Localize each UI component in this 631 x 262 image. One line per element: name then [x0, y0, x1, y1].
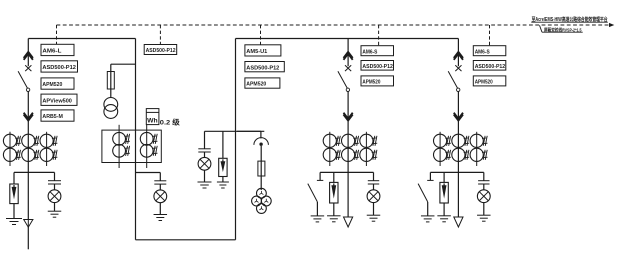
- circuit breaker feeder2 contact cross: [455, 65, 461, 71]
- display label box feeder1 ASD500-P12: [361, 61, 394, 71]
- ground of PT arrester: [217, 181, 229, 183]
- circuit breaker feeder1 pivot: [346, 88, 349, 91]
- svg-text:AM5-U1: AM5-U1: [246, 49, 268, 55]
- platform title underline: [531, 21, 608, 23]
- svg-text:ASD500-P12: ASD500-P12: [475, 64, 506, 70]
- wire PT branch rail: [205, 130, 265, 132]
- svg-text:APM520: APM520: [42, 82, 62, 88]
- svg-text:APM520: APM520: [475, 80, 493, 86]
- label box incoming ARB5-M: [41, 110, 74, 121]
- ground of indicator feeder1: [367, 214, 381, 216]
- current transformers feeder1 phase stubs: [329, 132, 331, 166]
- wire feeder1 through CT group: [347, 134, 349, 172]
- CT feeder1 col2 row2: [342, 148, 355, 161]
- CT feeder1 col3 row2: [360, 148, 373, 161]
- CT feeder1 col1 row1: [323, 134, 336, 147]
- svg-text:AM6-L: AM6-L: [42, 49, 61, 55]
- wire feeder2 bottom rail: [430, 171, 483, 173]
- metering CT col2 row2: [140, 144, 153, 157]
- ground of arrester feeder2: [437, 215, 451, 217]
- ground of arrester incoming: [6, 218, 22, 220]
- wire incoming QF1 below breaker: [27, 92, 29, 135]
- drawout contact upper incoming QF1: [24, 52, 33, 58]
- wire feeder2 below breaker: [457, 92, 459, 135]
- comm drop to feeder2 AM6-S: [489, 25, 491, 46]
- svg-text:Wh: Wh: [147, 118, 158, 125]
- wire PT cabinet main riser: [235, 39, 237, 240]
- live-line indicator feeder2 capacitor and lamp: [483, 172, 485, 180]
- communication bus dashed line: [57, 24, 610, 26]
- meter label box feeder2 APM520: [473, 76, 506, 86]
- display label box feeder2 ASD500-P12: [473, 61, 506, 71]
- live-line indicator incoming capacitor and lamp: [54, 172, 56, 180]
- circuit breaker feeder2 blade: [448, 71, 457, 88]
- wire PT fuse branch: [237, 130, 261, 132]
- svg-text:APM520: APM520: [246, 82, 266, 88]
- relay label box feeder2 AM6-S: [473, 46, 506, 56]
- wire metering PT branch: [111, 63, 136, 65]
- wire feeder1 below breaker: [347, 92, 349, 135]
- cable head feeder1 outgoing arrow: [344, 217, 353, 227]
- CT incoming col2 row1: [22, 134, 35, 147]
- cable head incoming triangle: [24, 220, 33, 228]
- meter label box feeder1 APM520: [361, 76, 394, 86]
- fuse FU2 PT cabinet: [258, 161, 265, 176]
- svg-text:AM6-S: AM6-S: [362, 49, 377, 55]
- drawout contact upper feeder1: [344, 52, 353, 58]
- ground of earthing switch feeder2: [421, 215, 435, 217]
- energy meter Wh box: [146, 109, 159, 125]
- circuit breaker feeder1 blade: [338, 71, 347, 88]
- wire incoming bottom rail: [14, 171, 55, 173]
- busbar segment left: [28, 38, 135, 40]
- display label box metering ASD500-P12: [144, 45, 177, 55]
- svg-text:ARB5-M: ARB5-M: [42, 114, 63, 120]
- live-line indicator feeder1 capacitor and lamp: [373, 172, 375, 180]
- CT feeder2 col1 row2: [434, 148, 447, 161]
- metering CT col1 row2: [113, 144, 126, 157]
- circuit breaker feeder2 pivot: [457, 88, 460, 91]
- comm drop to feeder1 AM6-S: [378, 25, 380, 46]
- earthing switch feeder1: [319, 172, 321, 180]
- wire feeder1 bottom rail: [320, 171, 373, 173]
- wire feeder2 riser from bus: [457, 39, 459, 67]
- voltage transformer 3-winding cluster: [257, 188, 267, 198]
- plug contact arc: [254, 138, 269, 145]
- svg-text:ASD500-P12: ASD500-P12: [246, 65, 279, 71]
- surge arrester feeder1: [333, 172, 335, 182]
- wire feeder1 outgoing: [347, 172, 349, 217]
- wire metering main drop: [135, 39, 137, 240]
- circuit breaker feeder1 contact cross: [345, 65, 351, 71]
- wire feeder2 through CT group: [457, 134, 459, 172]
- wire incoming through CT group: [27, 134, 29, 172]
- CT feeder1 col2 row1: [342, 134, 355, 147]
- svg-text:APM520: APM520: [362, 80, 380, 86]
- wire feeder2 outgoing: [457, 172, 459, 217]
- relay label box feeder1 AM6-S: [361, 46, 394, 56]
- CT feeder2 col3 row2: [470, 148, 483, 161]
- svg-text:屏蔽双绞线RVSP-2*1.5: 屏蔽双绞线RVSP-2*1.5: [544, 26, 582, 33]
- wire bottom rail to PT cabinet: [136, 239, 236, 241]
- relay label box incoming AM6-L: [41, 44, 74, 55]
- CT feeder2 col1 row1: [434, 134, 447, 147]
- drawout contact lower incoming QF1: [24, 113, 33, 119]
- ground of indicator feeder2: [477, 214, 491, 216]
- display label box incoming ASD500-P12: [41, 61, 78, 72]
- svg-text:ASD500-P12: ASD500-P12: [362, 64, 393, 70]
- comm drop to metering ASD500-P12: [159, 25, 161, 45]
- wire feeder1 riser from bus: [347, 39, 349, 67]
- current transformers incoming phase stubs: [9, 132, 11, 166]
- ground of indicator incoming: [48, 210, 62, 212]
- drawout contact lower feeder1: [344, 113, 353, 119]
- CT incoming col2 row2: [22, 148, 35, 161]
- ground of arrester feeder1: [327, 215, 341, 217]
- comm drop to AM6-L: [56, 25, 58, 44]
- metering CT col1 row1: [113, 132, 126, 145]
- fuse FU1 metering PT: [107, 72, 114, 90]
- earthing switch feeder2: [429, 172, 431, 180]
- surge arrester feeder2: [443, 172, 445, 182]
- display label box PT ASD500-P12: [245, 62, 284, 72]
- current transformers feeder2 phase stubs: [439, 132, 441, 166]
- ground of earthing switch feeder1: [311, 215, 325, 217]
- meter label box PT APM520: [245, 78, 280, 88]
- CT feeder2 col3 row1: [470, 134, 483, 147]
- CT feeder2 col2 row1: [452, 134, 465, 147]
- circuit breaker incoming QF1 pivot: [26, 88, 29, 91]
- ground of PT indicator: [198, 181, 212, 183]
- wire incoming cable riser: [27, 172, 29, 249]
- voltage transformer PT1 metering: [104, 98, 118, 112]
- circuit breaker incoming QF1 contact cross: [25, 65, 31, 71]
- live-line indicator PT capacitor and lamp: [204, 131, 206, 149]
- surge arrester PT cabinet: [222, 131, 224, 158]
- wire metering lamp branch: [136, 172, 161, 174]
- CT feeder1 col3 row1: [360, 134, 373, 147]
- shielded twisted pair leader line: [540, 25, 543, 32]
- CT incoming col3 row2: [40, 148, 53, 161]
- drawout contact lower feeder2: [454, 113, 463, 119]
- CT incoming col3 row1: [40, 134, 53, 147]
- label box incoming APView500: [41, 94, 77, 105]
- ground of metering indicator: [154, 214, 168, 216]
- metering CT col2 row1: [140, 132, 153, 145]
- cable head feeder2 outgoing arrow: [454, 217, 463, 227]
- plug contact dot: [260, 143, 263, 146]
- svg-text:AM6-S: AM6-S: [475, 49, 490, 55]
- metering CT stubs: [118, 125, 120, 168]
- comm drop to AM5-U1: [260, 25, 262, 45]
- busbar segment right: [236, 38, 459, 40]
- CT incoming col1 row1: [3, 134, 16, 147]
- CT feeder1 col1 row2: [323, 148, 336, 161]
- wire to PT fuse: [260, 146, 262, 190]
- meter label box incoming APM520: [41, 78, 74, 89]
- svg-text:ASD500-P12: ASD500-P12: [42, 65, 76, 71]
- live-line indicator metering capacitor and lamp: [159, 173, 161, 181]
- communication bus arrow head: [609, 23, 614, 27]
- svg-text:0.2 级: 0.2 级: [160, 117, 180, 126]
- svg-text:ASD500-P12: ASD500-P12: [146, 48, 176, 54]
- metering CT enclosure box: [102, 130, 161, 162]
- CT feeder2 col2 row2: [452, 148, 465, 161]
- svg-text:APView500: APView500: [42, 98, 72, 104]
- surge arrester incoming F1: [13, 172, 15, 184]
- drawout contact upper feeder2: [454, 52, 463, 58]
- CT incoming col1 row2: [3, 148, 16, 161]
- wire incoming QF1 riser from bus: [27, 39, 29, 67]
- circuit breaker incoming QF1 blade: [18, 71, 27, 88]
- relay label box PT AM5-U1: [245, 45, 281, 56]
